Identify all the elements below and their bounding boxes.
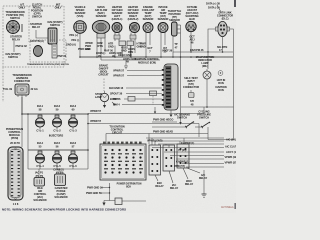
power distribution box bbox=[100, 142, 146, 180]
label power distribution box bbox=[117, 184, 142, 189]
svg-text:CONNECTOR: CONNECTOR bbox=[14, 79, 30, 83]
wire HO2S-1 down bbox=[114, 33, 116, 42]
svg-text:(DLC): (DLC) bbox=[222, 17, 229, 21]
inline connector 31 bbox=[115, 198, 122, 205]
svg-text:RUN: RUN bbox=[218, 81, 224, 85]
wire VPWR feed1 bbox=[88, 113, 204, 115]
wire pwr gnd 16 bbox=[101, 188, 110, 201]
ground arrow left bbox=[103, 201, 105, 203]
label starter relay (left) bbox=[10, 35, 22, 42]
svg-text:RELAY: RELAY bbox=[12, 38, 21, 42]
wire right corner bbox=[208, 139, 234, 141]
svg-text:(MIL): (MIL) bbox=[202, 64, 208, 68]
label ignition control module ICM bbox=[135, 57, 160, 65]
label IAT 25 bbox=[163, 46, 167, 54]
label data link connector DLC bbox=[217, 11, 233, 21]
dashed enclosure transmission switches bbox=[3, 6, 64, 102]
ground sym bus bbox=[124, 60, 128, 69]
A/C demand switch symbol bbox=[152, 121, 202, 128]
stop lamp circle BOO bbox=[100, 91, 108, 102]
malfunction indicator lamp MIL bbox=[203, 69, 211, 107]
wire feed left vertical bbox=[27, 114, 29, 169]
label ign start switch bbox=[6, 52, 21, 59]
svg-text:RELAY: RELAY bbox=[185, 182, 194, 186]
label engine coolant temp sensor bbox=[142, 5, 155, 21]
svg-text:RELAY: RELAY bbox=[199, 176, 208, 180]
svg-text:RELAY: RELAY bbox=[32, 25, 41, 29]
svg-text:KAPWR (1): KAPWR (1) bbox=[176, 159, 189, 163]
starter relay component bbox=[48, 28, 57, 44]
svg-text:GD RTN (A): GD RTN (A) bbox=[30, 39, 44, 43]
svg-text:VPWR 57: VPWR 57 bbox=[90, 109, 102, 113]
wire stack 3 bbox=[158, 143, 224, 145]
svg-text:NOTE: WIRING SCHEMATIC SHOWN P: NOTE: WIRING SCHEMATIC SHOWN PRIOR LOCKI… bbox=[2, 208, 126, 212]
throttle position TP sensor bbox=[172, 22, 181, 36]
svg-text:ACCY (1): ACCY (1) bbox=[226, 150, 236, 154]
svg-text:RTN: RTN bbox=[98, 44, 103, 48]
injector INJ-6 bbox=[68, 151, 77, 169]
spout inline connector bbox=[150, 91, 157, 96]
svg-text:SENSOR: SENSOR bbox=[143, 17, 154, 21]
svg-text:VPW (57): VPW (57) bbox=[174, 164, 185, 168]
injector INJ-3 bbox=[68, 115, 77, 129]
svg-text:INJ-1: INJ-1 bbox=[37, 104, 44, 108]
svg-text:RELAY: RELAY bbox=[170, 186, 179, 190]
wire DLC left bbox=[208, 29, 216, 52]
svg-text:CYL-3: CYL-3 bbox=[69, 129, 77, 133]
label mass air flow sensor bbox=[95, 5, 108, 18]
svg-text:IGNITION CONTROL: IGNITION CONTROL bbox=[135, 57, 160, 61]
svg-text:LAMP: LAMP bbox=[95, 95, 102, 99]
label PWR GND r2 bbox=[140, 42, 146, 49]
svg-text:YF (25): YF (25) bbox=[178, 148, 186, 152]
label IAC relay bbox=[170, 183, 179, 190]
svg-text:CYL-5: CYL-5 bbox=[53, 164, 61, 168]
transmission harness connector bbox=[15, 84, 29, 97]
label HO2S sig bbox=[121, 46, 128, 53]
svg-text:CONNECTOR: CONNECTOR bbox=[183, 85, 199, 89]
wire stack 4 bbox=[152, 147, 224, 149]
svg-text:SOLENOID: SOLENOID bbox=[54, 195, 67, 199]
svg-text:BK/CPM 46: BK/CPM 46 bbox=[190, 48, 204, 52]
wire DLC right bbox=[230, 28, 234, 30]
svg-text:SWITCH: SWITCH bbox=[8, 55, 18, 59]
svg-text:SWITCH: SWITCH bbox=[32, 15, 42, 19]
wire stack 1 bbox=[146, 137, 224, 139]
wire pwr gnd 51 bbox=[100, 192, 110, 194]
svg-text:BOX: BOX bbox=[126, 187, 131, 189]
svg-text:GND: GND bbox=[108, 45, 114, 49]
self test input STI connector bbox=[189, 90, 195, 98]
svg-text:INJ-4: INJ-4 bbox=[37, 141, 44, 145]
heated oxygen sensor HO2S-2 bbox=[130, 23, 140, 33]
label TP 47 bbox=[174, 42, 178, 50]
svg-text:GND (A): GND (A) bbox=[66, 43, 76, 47]
label idle air control bbox=[33, 186, 46, 202]
injector INJ-1 bbox=[35, 115, 44, 129]
svg-text:SENSOR: SENSOR bbox=[96, 14, 107, 18]
wire to IAC bbox=[38, 169, 40, 175]
wire VSS down bbox=[79, 33, 81, 57]
svg-text:VPWR (GND): VPWR (GND) bbox=[225, 155, 237, 159]
label HTR GND bbox=[108, 42, 114, 49]
wire harness to injector feed bbox=[21, 97, 23, 114]
svg-text:IDM 4: IDM 4 bbox=[113, 103, 120, 107]
svg-text:CYL-2: CYL-2 bbox=[53, 129, 61, 133]
svg-text:ECT: ECT bbox=[147, 46, 153, 50]
intake air temp IAT sensor bbox=[158, 23, 168, 33]
label heated oxygen sensor left bbox=[112, 5, 123, 21]
label A/C demand switch bbox=[174, 113, 190, 120]
PNP connector strip bbox=[52, 44, 57, 58]
svg-text:PNP-B 32: PNP-B 32 bbox=[16, 44, 28, 48]
wire cpp to relay bbox=[36, 30, 48, 38]
label vehicle speed sensor VSS bbox=[75, 5, 86, 18]
MAF bottom connector bbox=[97, 34, 105, 39]
label 4WD start switch bbox=[48, 20, 63, 27]
svg-text:AUTOMELA: AUTOMELA bbox=[221, 206, 234, 209]
vehicle speed sensor VSS bbox=[74, 21, 87, 34]
svg-text:VSS (-): VSS (-) bbox=[71, 38, 79, 42]
svg-text:GND: GND bbox=[140, 45, 146, 49]
wire vref line bbox=[173, 51, 233, 53]
label starter relay (right) bbox=[30, 22, 42, 29]
svg-text:CIRCUIT: CIRCUIT bbox=[98, 73, 109, 77]
svg-text:(PCM): (PCM) bbox=[11, 136, 18, 140]
svg-text:BAR: BAR bbox=[189, 17, 195, 21]
label transmission harness connector bbox=[12, 73, 31, 83]
canister purge CANP solenoid bbox=[55, 172, 66, 186]
svg-text:IGN GND 16: IGN GND 16 bbox=[109, 86, 124, 90]
leader lines DLC bbox=[217, 5, 221, 12]
label octane adjust shorting bar bbox=[185, 5, 198, 21]
label WAC relay bbox=[185, 179, 194, 186]
relay A/C bbox=[177, 144, 189, 168]
svg-text:SPOUT 36: SPOUT 36 bbox=[110, 92, 123, 96]
wire right loop top bbox=[207, 52, 209, 69]
svg-text:ONLY: ONLY bbox=[19, 6, 26, 10]
wire VPWR b bbox=[127, 75, 162, 77]
svg-text:CIRCUIT: CIRCUIT bbox=[112, 131, 123, 135]
svg-text:TCIL 39: TCIL 39 bbox=[3, 87, 13, 91]
label A/C relay bbox=[199, 173, 208, 180]
engine coolant temp ECT sensor bbox=[143, 23, 153, 33]
svg-text:INJ-3: INJ-3 bbox=[70, 104, 77, 108]
label SIG RTN 17 bbox=[217, 45, 227, 52]
injector INJ-2 bbox=[52, 115, 61, 129]
wire injector feed bus row 2 bbox=[28, 149, 88, 151]
wire gnd run bbox=[104, 200, 146, 203]
svg-text:PNP 30: PNP 30 bbox=[58, 54, 67, 58]
svg-text:HEGO GND: HEGO GND bbox=[118, 53, 132, 57]
wire splice 2 down bbox=[129, 46, 131, 58]
svg-text:SWITCH: SWITCH bbox=[10, 16, 20, 20]
svg-text:32 GA: 32 GA bbox=[31, 87, 38, 91]
svg-text:STI: STI bbox=[190, 99, 194, 103]
label to ignition control circuit bbox=[109, 125, 124, 135]
label hot in run bbox=[217, 78, 226, 85]
wire VPWR feed2 bbox=[88, 123, 199, 125]
label MAF RTN bbox=[98, 41, 104, 48]
wire PWR GND HEGO bbox=[106, 133, 208, 135]
svg-text:PIP 56: PIP 56 bbox=[113, 97, 121, 101]
wire MAF down 3 bbox=[104, 33, 106, 50]
junction dot bbox=[21, 113, 23, 115]
svg-text:CYL-6: CYL-6 bbox=[69, 164, 77, 168]
wire relay drops bbox=[151, 138, 153, 145]
wire VPWR a bbox=[127, 70, 162, 72]
mass air flow MAF sensor bbox=[92, 20, 109, 33]
wire injector feed bus bbox=[22, 113, 88, 115]
right edge marks bbox=[234, 0, 236, 7]
leader WAC relay bbox=[183, 168, 188, 179]
wire right edge vertical bbox=[233, 29, 235, 140]
svg-text:(VSS): (VSS) bbox=[77, 14, 84, 18]
arrow IDM distributor bbox=[154, 107, 156, 114]
svg-text:CANP 31: CANP 31 bbox=[53, 168, 64, 172]
arrow BOO bbox=[112, 102, 115, 105]
data link connector DLC bbox=[216, 21, 230, 36]
wire IGN GND bbox=[126, 87, 162, 89]
label INJ-1 58 bbox=[37, 104, 44, 112]
injector INJ-5 bbox=[52, 151, 61, 169]
wire IAT down bbox=[160, 33, 162, 58]
svg-text:INJ-6: INJ-6 bbox=[70, 141, 77, 145]
octane adjust shorting bar component bbox=[186, 21, 196, 31]
svg-text:IAC P1: IAC P1 bbox=[35, 171, 44, 175]
wire stack 9 bbox=[186, 166, 224, 168]
wire stack 7 bbox=[176, 158, 224, 160]
label M/T ONLY bbox=[55, 3, 62, 10]
junction dots on bus bbox=[79, 56, 192, 58]
label HO2S RTN bbox=[128, 47, 135, 54]
wire stack 5 bbox=[164, 151, 224, 153]
relay WAC bbox=[163, 145, 175, 171]
wire row2 bottom rail bbox=[28, 168, 88, 170]
wire TP down bbox=[172, 36, 174, 57]
svg-text:DATA (+) 38: DATA (+) 38 bbox=[206, 2, 220, 6]
svg-text:PWR GND 51: PWR GND 51 bbox=[86, 191, 102, 195]
label transmission position TR switch bbox=[5, 10, 24, 20]
wire box top right bbox=[181, 106, 234, 108]
main signal return bus bbox=[80, 56, 233, 58]
svg-text:RUN: RUN bbox=[218, 88, 224, 92]
svg-text:VPWR 57: VPWR 57 bbox=[113, 69, 125, 73]
wire stack 6 bbox=[170, 155, 224, 157]
svg-text:TP: TP bbox=[174, 42, 178, 46]
svg-text:VPWR (57D): VPWR (57D) bbox=[225, 161, 237, 165]
wire stack 2 bbox=[152, 140, 224, 142]
label ignition run bbox=[215, 85, 226, 92]
svg-text:VSS (+): VSS (+) bbox=[69, 33, 78, 37]
svg-text:MODULE (ICM): MODULE (ICM) bbox=[138, 61, 156, 65]
PIP inline connector bbox=[128, 97, 135, 102]
relay EEC bbox=[149, 145, 161, 175]
label INJ-2 59 bbox=[54, 104, 61, 112]
svg-text:SENSOR: SENSOR bbox=[169, 18, 180, 22]
label throttle position TP sensor bbox=[168, 9, 182, 22]
svg-text:PWR GND HEGO: PWR GND HEGO bbox=[153, 118, 173, 122]
wire ECT down bbox=[145, 33, 147, 58]
PCM connector bbox=[8, 147, 23, 200]
label malfunction indicator lamp bbox=[196, 55, 215, 68]
wire to CANP bbox=[59, 169, 61, 172]
wire PWR GND HEAD bbox=[152, 121, 177, 123]
wire IDM bbox=[122, 104, 162, 106]
label cycling pressure switch bbox=[197, 110, 211, 120]
svg-text:TRANSMISSION POSITION (PNP) SW: TRANSMISSION POSITION (PNP) SWITCH bbox=[27, 63, 69, 66]
svg-text:PWR GND: PWR GND bbox=[78, 47, 90, 51]
svg-text:VREF 26: VREF 26 bbox=[162, 49, 173, 53]
label STI 48 bbox=[190, 99, 194, 107]
HO2S-1 bottom connector bbox=[114, 35, 120, 39]
transmission range TR switch bbox=[7, 21, 20, 34]
wire MAF down 2 bbox=[100, 34, 102, 60]
leader IAC relay bbox=[169, 171, 173, 183]
svg-text:VPWR 57: VPWR 57 bbox=[113, 74, 125, 78]
ground bottom right bbox=[202, 170, 207, 197]
wire to PNP-B bbox=[13, 41, 15, 52]
wire OCT down bbox=[190, 32, 192, 52]
wire HO2S-2 down bbox=[130, 33, 132, 42]
svg-text:(HO2S-2): (HO2S-2) bbox=[128, 17, 139, 21]
svg-text:INJ-2: INJ-2 bbox=[54, 104, 61, 108]
label HO2S 29 bbox=[123, 57, 136, 64]
wire splice 1 down bbox=[121, 46, 123, 58]
ground below stop lamp bbox=[103, 102, 106, 108]
wire SPOUT bbox=[126, 93, 162, 95]
wire PIP bbox=[124, 98, 162, 100]
leader EEC relay bbox=[155, 175, 158, 181]
label INJ-4 bbox=[37, 141, 44, 149]
PNP switch box bbox=[30, 40, 66, 62]
label INJ-5 bbox=[54, 141, 61, 149]
svg-text:SWITCH: SWITCH bbox=[50, 23, 60, 27]
ignition feed circle bbox=[218, 71, 223, 76]
wire vertical x88 bbox=[87, 114, 89, 170]
label VPWR PWR GND bbox=[85, 41, 93, 51]
svg-text:ONLY: ONLY bbox=[55, 6, 62, 10]
injector INJ-4 bbox=[35, 151, 44, 169]
label OCT ADJ 46 bbox=[189, 35, 195, 45]
splice box 2 bbox=[127, 41, 134, 46]
leader A/C relay bbox=[187, 168, 200, 173]
ignition control module connector bbox=[162, 64, 178, 110]
svg-text:SWITCH: SWITCH bbox=[177, 116, 187, 120]
svg-text:1 2 8: 1 2 8 bbox=[13, 202, 19, 206]
label HO2S-21 29 bbox=[96, 51, 105, 58]
ground below ICM bbox=[170, 110, 173, 117]
label canister purge bbox=[54, 186, 67, 199]
HO2S-2 bottom connector bbox=[130, 35, 136, 39]
wire DLC bottom bbox=[222, 37, 224, 52]
label intake air temp sensor bbox=[158, 5, 169, 21]
label heated oxygen sensor right bbox=[128, 5, 139, 21]
svg-text:PWR GND HEAD: PWR GND HEAD bbox=[153, 130, 173, 134]
label EEC relay bbox=[155, 181, 164, 188]
svg-text:A/C CLUTCH: A/C CLUTCH bbox=[225, 145, 236, 149]
label ECT 7 bbox=[147, 46, 153, 54]
wire TR switch pigtail bbox=[21, 24, 23, 32]
svg-text:SENSOR: SENSOR bbox=[158, 17, 169, 21]
svg-text:POWER DISTRIBUTION: POWER DISTRIBUTION bbox=[117, 184, 142, 186]
label self test input connector bbox=[183, 76, 199, 89]
label HO2S GND bbox=[109, 51, 122, 58]
secondary bus bbox=[101, 59, 160, 61]
svg-text:VPWR 57: VPWR 57 bbox=[90, 119, 102, 123]
dashed spout jumper bbox=[152, 93, 154, 105]
svg-text:PWR GND 16: PWR GND 16 bbox=[87, 186, 103, 190]
cycling pressure switch symbol bbox=[201, 122, 210, 140]
splice box 1 bbox=[119, 41, 126, 46]
svg-text:26 30 55: 26 30 55 bbox=[10, 141, 20, 145]
svg-text:INJ-5: INJ-5 bbox=[54, 141, 61, 145]
PNP switch rotor bbox=[34, 46, 43, 57]
label INJ-3 60 bbox=[70, 104, 77, 112]
wire stack 8 bbox=[182, 163, 224, 165]
heated oxygen sensor HO2S-1 bbox=[112, 23, 122, 33]
svg-text:CYL-1: CYL-1 bbox=[36, 129, 44, 133]
label powertrain control module PCM bbox=[6, 127, 23, 140]
label STOP LAMP bbox=[95, 92, 102, 99]
label clutch pedal position switch bbox=[31, 3, 43, 19]
svg-text:KAPWR (1): KAPWR (1) bbox=[181, 141, 194, 145]
svg-text:SOLENOID: SOLENOID bbox=[33, 198, 46, 202]
svg-text:(HO2S-1): (HO2S-1) bbox=[112, 17, 123, 21]
svg-text:RELAY: RELAY bbox=[155, 184, 164, 188]
svg-text:SWITCH: SWITCH bbox=[199, 116, 209, 120]
dashed wire BOO bbox=[103, 79, 105, 92]
wire MAF down 1 bbox=[96, 33, 98, 57]
svg-text:CYL-4: CYL-4 bbox=[36, 164, 44, 168]
svg-text:INJECTORS: INJECTORS bbox=[49, 134, 64, 138]
svg-text:A/C (5A): A/C (5A) bbox=[226, 138, 236, 142]
svg-text:GND: GND bbox=[121, 49, 127, 53]
label brake on off BOO circuit bbox=[98, 64, 109, 77]
label INJ-6 bbox=[70, 141, 77, 149]
wire harness down to PCM bbox=[21, 114, 23, 147]
idle air control IAC solenoid bbox=[34, 176, 45, 187]
label HTR GND 2 bbox=[137, 42, 143, 49]
